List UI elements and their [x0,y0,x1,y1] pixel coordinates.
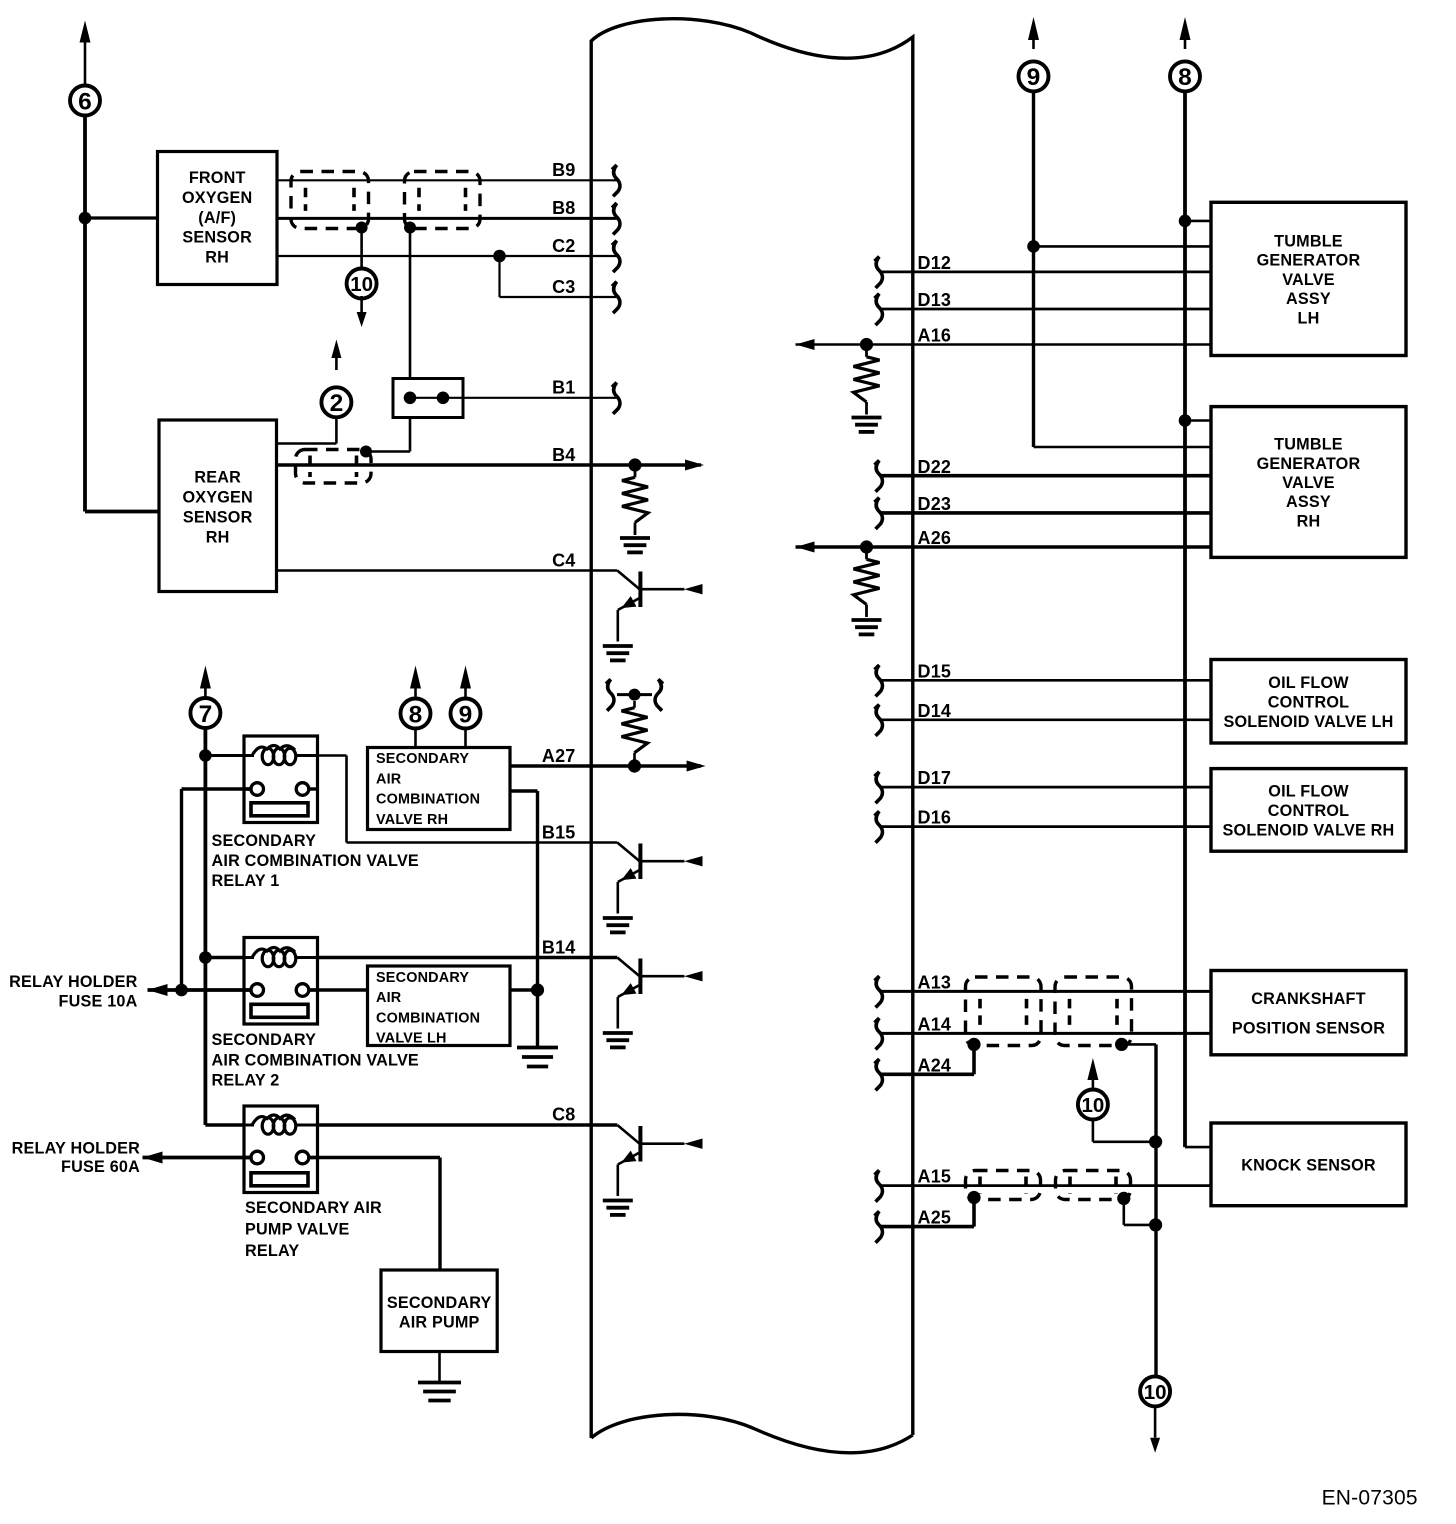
svg-text:C8: C8 [552,1105,575,1125]
svg-text:AIR: AIR [376,990,402,1006]
svg-text:CONTROL: CONTROL [1268,693,1349,711]
svg-text:SECONDARY: SECONDARY [212,832,317,850]
svg-text:B15: B15 [542,822,576,842]
svg-text:D15: D15 [918,661,952,681]
svg-text:A14: A14 [918,1015,952,1035]
svg-text:10: 10 [1144,1381,1167,1404]
svg-text:VALVE: VALVE [1282,474,1335,492]
svg-text:ASSY: ASSY [1286,290,1331,308]
svg-text:7: 7 [199,701,213,728]
svg-text:B1: B1 [552,378,575,398]
svg-text:SOLENOID VALVE LH: SOLENOID VALVE LH [1223,713,1393,731]
svg-text:SECONDARY: SECONDARY [376,970,469,986]
svg-text:A27: A27 [542,746,576,766]
svg-text:KNOCK SENSOR: KNOCK SENSOR [1241,1156,1376,1174]
svg-text:SENSOR: SENSOR [182,229,252,247]
svg-text:OIL FLOW: OIL FLOW [1268,674,1349,692]
svg-text:OXYGEN: OXYGEN [182,189,252,207]
svg-text:10: 10 [350,273,373,296]
svg-text:A24: A24 [918,1055,952,1075]
svg-text:RELAY 2: RELAY 2 [212,1072,280,1090]
svg-text:6: 6 [78,88,92,115]
svg-text:9: 9 [1027,64,1041,91]
svg-text:GENERATOR: GENERATOR [1257,252,1361,270]
svg-text:D14: D14 [918,701,952,721]
svg-text:FRONT: FRONT [189,169,246,187]
svg-text:RELAY: RELAY [245,1242,299,1260]
svg-text:EN-07305: EN-07305 [1322,1487,1418,1510]
svg-text:POSITION SENSOR: POSITION SENSOR [1232,1019,1385,1037]
svg-text:PUMP VALVE: PUMP VALVE [245,1220,350,1238]
svg-text:D17: D17 [918,768,952,788]
svg-text:RH: RH [1297,512,1321,530]
svg-text:SOLENOID VALVE RH: SOLENOID VALVE RH [1223,821,1395,839]
svg-text:VALVE RH: VALVE RH [376,812,448,828]
svg-text:VALVE LH: VALVE LH [376,1031,447,1047]
svg-text:CONTROL: CONTROL [1268,802,1349,820]
svg-text:RELAY 1: RELAY 1 [212,872,280,890]
svg-text:A16: A16 [918,326,952,346]
svg-text:RH: RH [206,529,230,547]
svg-text:RELAY HOLDER: RELAY HOLDER [12,1140,140,1158]
svg-text:FUSE 10A: FUSE 10A [59,993,138,1011]
svg-text:A13: A13 [918,973,952,993]
svg-text:TUMBLE: TUMBLE [1274,436,1343,454]
svg-text:(A/F): (A/F) [198,209,236,227]
svg-text:LH: LH [1298,309,1320,327]
svg-text:2: 2 [330,390,344,417]
svg-text:D13: D13 [918,290,952,310]
svg-text:SECONDARY: SECONDARY [387,1294,492,1312]
svg-text:B14: B14 [542,937,576,957]
svg-text:A15: A15 [918,1167,952,1187]
svg-text:GENERATOR: GENERATOR [1257,455,1361,473]
svg-text:C3: C3 [552,277,575,297]
svg-text:RH: RH [205,249,229,267]
svg-text:9: 9 [459,701,473,728]
svg-text:SECONDARY: SECONDARY [212,1031,317,1049]
svg-text:B9: B9 [552,160,575,180]
svg-text:VALVE: VALVE [1282,271,1335,289]
svg-text:REAR: REAR [194,469,241,487]
svg-text:SECONDARY: SECONDARY [376,751,469,767]
svg-text:COMBINATION: COMBINATION [376,792,480,808]
svg-text:D16: D16 [918,808,952,828]
svg-text:B4: B4 [552,445,575,465]
svg-text:8: 8 [1178,64,1192,91]
svg-text:AIR: AIR [376,771,402,787]
svg-text:B8: B8 [552,198,575,218]
svg-text:A25: A25 [918,1208,952,1228]
svg-text:CRANKSHAFT: CRANKSHAFT [1251,990,1365,1008]
svg-text:TUMBLE: TUMBLE [1274,233,1343,251]
svg-text:C4: C4 [552,550,575,570]
svg-text:D23: D23 [918,494,952,514]
svg-text:A26: A26 [918,528,952,548]
svg-text:AIR COMBINATION VALVE: AIR COMBINATION VALVE [212,852,419,870]
svg-text:RELAY HOLDER: RELAY HOLDER [9,973,137,991]
svg-text:AIR COMBINATION VALVE: AIR COMBINATION VALVE [212,1051,419,1069]
svg-text:SECONDARY AIR: SECONDARY AIR [245,1199,382,1217]
svg-text:SENSOR: SENSOR [183,509,253,527]
svg-text:AIR PUMP: AIR PUMP [399,1314,480,1332]
svg-text:OIL FLOW: OIL FLOW [1268,782,1349,800]
svg-text:COMBINATION: COMBINATION [376,1010,480,1026]
svg-text:FUSE 60A: FUSE 60A [61,1158,140,1176]
svg-text:D12: D12 [918,253,952,273]
svg-text:ASSY: ASSY [1286,493,1331,511]
svg-text:OXYGEN: OXYGEN [182,489,252,507]
svg-text:C2: C2 [552,236,575,256]
svg-text:D22: D22 [918,457,952,477]
svg-text:8: 8 [409,701,423,728]
svg-text:10: 10 [1081,1094,1104,1117]
